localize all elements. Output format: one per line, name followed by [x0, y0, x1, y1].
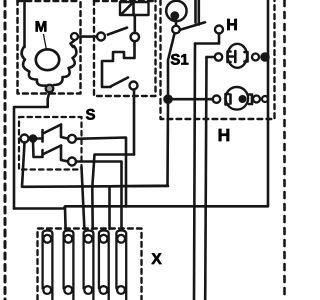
relay coil diagonal — [121, 3, 133, 15]
connector X5 capsule — [116, 231, 126, 300]
connector X3 capsule — [84, 231, 94, 300]
S pole2 right contact bar — [61, 146, 68, 162]
motor bottom terminal — [46, 85, 54, 93]
horn2 inner dot — [239, 95, 247, 103]
wire junction down to routing — [110, 103, 169, 187]
horn1 left wire — [207, 56, 215, 59]
H terminal — [215, 26, 223, 34]
wire S left terminal down and right (long horizontal) — [22, 143, 168, 187]
horn2 far right small circle — [262, 96, 268, 102]
junction dot horns — [165, 96, 172, 103]
staircase wire from relay terminal — [102, 41, 135, 87]
dashed box relay — [94, 0, 156, 96]
branch down to X4 — [108, 186, 111, 229]
long vertical wire 1 — [194, 44, 195, 300]
horn1 junction dot on bus — [262, 54, 269, 61]
relay terminal — [131, 33, 139, 41]
wire dot to pole1 contact — [36, 137, 43, 140]
horn1 left terminal — [215, 53, 222, 60]
X4 bottom circle — [100, 286, 108, 294]
S pole1 right contact bar — [61, 125, 68, 139]
S pole1 left contact bar — [41, 130, 44, 142]
switch S left terminal — [21, 135, 29, 143]
connector X1 capsule — [43, 231, 53, 300]
connector X2 capsule — [64, 231, 74, 300]
horn2 right small circle — [253, 96, 260, 103]
horn 1 body — [228, 44, 248, 68]
switch K2 terminal — [130, 82, 138, 90]
X1 top circle — [43, 235, 51, 243]
main bus horizontal — [14, 0, 268, 209]
S1 wire down to junction — [168, 34, 175, 96]
connector X4 capsule — [99, 231, 109, 300]
X1 bottom circle — [43, 286, 51, 294]
S pole1 blade — [44, 125, 61, 134]
S1 stem — [175, 21, 178, 26]
X2 top circle — [64, 235, 72, 243]
svg-text:H: H — [218, 125, 231, 145]
wire S pole2 to X5 — [76, 162, 122, 230]
S pole1 terminal — [68, 135, 76, 143]
S1 feed wires from top — [194, 0, 197, 23]
horn2 left wire — [172, 98, 213, 101]
wire motor feed W1 down-left-down — [14, 93, 49, 209]
svg-text:M: M — [35, 19, 48, 36]
switch K1 blade — [108, 28, 127, 35]
S pole2 feed from dot — [33, 142, 43, 158]
dashed box M top edge — [18, 0, 81, 2]
wire K2 terminal down — [133, 90, 136, 155]
wire relay line left and down to X3 right — [92, 155, 134, 230]
horn 2 body — [226, 87, 249, 110]
relay stem wire — [134, 15, 137, 33]
horn2 inner bar — [229, 95, 232, 104]
S pole2 terminal — [68, 158, 76, 166]
outer dashed border right — [283, 0, 286, 300]
wire S box corner down to X3 left — [82, 167, 85, 229]
switch K2 blade — [111, 78, 129, 87]
horn1 right bracket — [245, 52, 248, 62]
X2 bottom circle — [64, 286, 72, 294]
long vertical wire 2 from horn1 left — [205, 57, 206, 300]
S1 blade — [180, 22, 205, 30]
horn1 left bracket — [228, 52, 231, 63]
motor M armature circle — [36, 49, 59, 70]
leader line from M label — [44, 35, 47, 51]
motor right terminal — [71, 33, 78, 40]
dashed box S (switch) — [19, 117, 82, 170]
svg-text:S1: S1 — [170, 52, 188, 69]
outer dashed border left — [4, 0, 7, 300]
horn1 inner bar — [234, 51, 237, 62]
svg-text:H: H — [226, 17, 238, 34]
horn2 left bracket — [226, 94, 229, 105]
wire H terminal L-shape — [195, 34, 219, 44]
dashed box relay top edge — [94, 0, 156, 2]
X3 bottom circle — [84, 286, 92, 294]
motor top-right zigzag wire — [71, 41, 75, 48]
X3 top circle — [84, 235, 92, 243]
horn1 inner line — [228, 55, 234, 58]
S1 inner dot — [170, 11, 179, 20]
relay coil divider — [132, 2, 135, 15]
motor M field scallops right — [54, 46, 77, 85]
branch bus down to X2 — [64, 208, 67, 230]
wire motor terminal to switch — [78, 35, 97, 38]
X5 bottom circle — [117, 286, 125, 294]
horn2 right bracket — [249, 95, 252, 105]
motor M field scallops left — [22, 46, 46, 86]
horn1 right small circle — [252, 54, 259, 61]
svg-text:X: X — [151, 251, 162, 268]
relay coil box — [120, 2, 149, 15]
X4 top circle — [100, 235, 108, 243]
S1 terminal — [172, 26, 180, 34]
svg-text:S: S — [85, 107, 95, 124]
junction dot S — [30, 136, 36, 142]
S1 pump circle — [166, 1, 186, 21]
S pole2 blade — [44, 146, 62, 155]
switch K1 left terminal — [97, 33, 105, 41]
wire S pole1 to bus via x126 — [76, 138, 126, 207]
dashed box H (horns enclosure) — [161, 0, 275, 119]
X5 top circle — [117, 235, 125, 243]
dashed box X (connector block) — [38, 229, 142, 300]
dashed box M (wiper motor enclosure) — [18, 0, 81, 94]
horn2 left terminal — [213, 96, 220, 103]
wire top feed to motor — [23, 0, 26, 47]
